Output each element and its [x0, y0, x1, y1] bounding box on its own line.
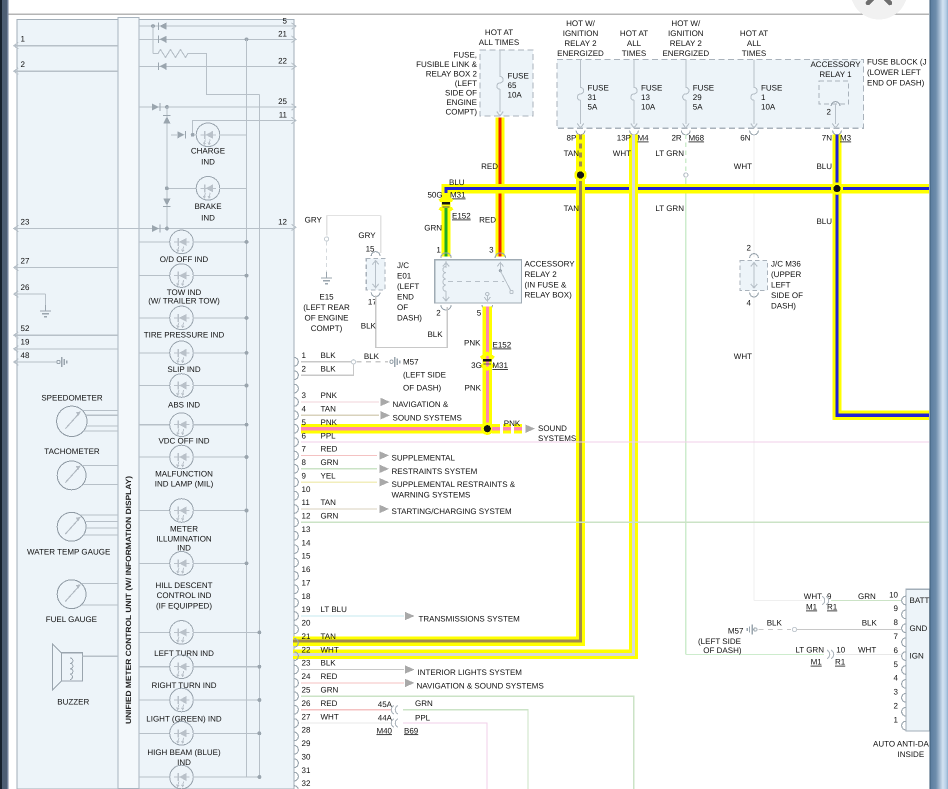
wire PNK from relay pin 5	[483, 307, 492, 429]
svg-text:PNK: PNK	[465, 384, 482, 393]
splice to ground E15	[325, 237, 329, 241]
wire RED meter pin 7 to supplemental restraints	[301, 454, 377, 456]
wire PNK meter pin 5 (highlighted) to sound systems	[301, 424, 487, 433]
svg-text:19: 19	[302, 605, 311, 614]
svg-text:BLK: BLK	[321, 659, 337, 668]
svg-text:1: 1	[894, 715, 899, 724]
svg-text:8: 8	[894, 618, 899, 627]
mirror pin 4	[902, 680, 906, 689]
svg-text:OF DASH): OF DASH)	[703, 646, 742, 655]
svg-text:15: 15	[302, 552, 311, 561]
slip indicator lamp	[139, 352, 170, 354]
dashed PNK stub to sound systems	[492, 424, 500, 433]
svg-text:IND: IND	[201, 158, 215, 167]
svg-text:GRN: GRN	[424, 224, 442, 233]
svg-text:RELAY BOX 2: RELAY BOX 2	[426, 70, 478, 79]
svg-text:GRN: GRN	[321, 686, 339, 695]
svg-text:WHT: WHT	[734, 352, 752, 361]
fuse block J/B (dashed enclosure)	[557, 60, 864, 129]
svg-text:ENGINE: ENGINE	[446, 98, 477, 107]
svg-text:HILL DESCENT: HILL DESCENT	[155, 581, 212, 590]
meter connector pin 18	[294, 598, 298, 607]
svg-text:BLK: BLK	[321, 351, 337, 360]
fuse & relay box 2 (dashed enclosure)	[480, 50, 533, 116]
svg-text:10: 10	[302, 485, 311, 494]
meter connector pin 12	[294, 518, 298, 527]
svg-text:3: 3	[489, 246, 494, 255]
svg-text:O/D OFF IND: O/D OFF IND	[160, 255, 209, 264]
svg-text:6: 6	[894, 646, 899, 655]
svg-text:WHT: WHT	[858, 645, 876, 654]
svg-text:11: 11	[302, 498, 311, 507]
junction node pin 25 row	[165, 105, 169, 109]
connector row 8P / 13P M4 / 2R M68 / 6N / 7N M3	[576, 131, 585, 135]
svg-text:BLK: BLK	[321, 364, 337, 373]
svg-text:BLK: BLK	[364, 352, 380, 361]
svg-text:FUEL GAUGE: FUEL GAUGE	[46, 615, 97, 624]
svg-text:ILLUMINATION: ILLUMINATION	[156, 535, 212, 544]
svg-text:LT BLU: LT BLU	[321, 605, 348, 614]
svg-text:(LEFT: (LEFT	[397, 282, 419, 291]
svg-text:FUSE: FUSE	[693, 84, 714, 93]
svg-text:10A: 10A	[641, 103, 656, 112]
svg-text:(W/ TRAILER TOW): (W/ TRAILER TOW)	[148, 297, 220, 306]
inline connector 50G M31 / E152	[440, 197, 453, 202]
svg-text:12: 12	[278, 218, 287, 227]
brake indicator lamp	[167, 187, 197, 189]
svg-text:SIDE OF: SIDE OF	[771, 291, 803, 300]
svg-text:R1: R1	[835, 658, 846, 667]
svg-text:LT GRN: LT GRN	[655, 149, 684, 158]
mirror pin 1	[902, 721, 906, 730]
svg-text:30: 30	[302, 752, 311, 761]
svg-text:44A: 44A	[378, 714, 393, 723]
meter connector pin 8	[294, 464, 298, 473]
charge indicator lamp	[196, 123, 220, 147]
svg-text:HOT AT: HOT AT	[485, 28, 513, 37]
wire BLU from fuse 1 (7N M3) vertical	[837, 135, 929, 416]
svg-text:(IN FUSE &: (IN FUSE &	[525, 280, 567, 289]
svg-text:16: 16	[302, 565, 311, 574]
svg-text:TAN: TAN	[564, 204, 580, 213]
wire GRN meter pin 12 (runs off right)	[301, 521, 929, 523]
svg-text:ABS IND: ABS IND	[168, 400, 200, 409]
svg-text:8P: 8P	[567, 134, 577, 143]
tire pressure indicator lamp	[139, 317, 170, 319]
accessory relay 2 dashed link	[448, 280, 504, 282]
svg-text:GRN: GRN	[415, 699, 433, 708]
meter connector pin 1	[294, 357, 298, 366]
svg-text:TAN: TAN	[321, 498, 337, 507]
svg-text:GRN: GRN	[321, 458, 339, 467]
svg-text:FUSE: FUSE	[761, 84, 782, 93]
meter connector pin 7	[294, 451, 298, 460]
svg-text:19: 19	[21, 338, 30, 347]
svg-text:END: END	[397, 292, 414, 301]
junction connector J/C E01 box	[366, 258, 385, 290]
svg-text:5A: 5A	[693, 103, 703, 112]
svg-text:RED: RED	[321, 672, 338, 681]
junction connector J/C E01 pin 17 hook	[371, 292, 380, 296]
wire BLK from J/C E01 pin 17 to relay pin 2	[376, 296, 448, 348]
svg-text:DASH): DASH)	[771, 302, 796, 311]
svg-text:12: 12	[302, 512, 311, 521]
svg-text:ALL TIMES: ALL TIMES	[479, 38, 519, 47]
wire pin 11 L-branch	[193, 121, 293, 135]
wire WHT from fuse 13 (13P) to meter pin 22	[293, 135, 634, 655]
left turn indicator lamp	[139, 631, 170, 633]
svg-text:IGN: IGN	[910, 652, 924, 661]
wire RED from fuse 65 to accessory relay 2 pin 3	[495, 118, 504, 257]
svg-text:STARTING/CHARGING SYSTEM: STARTING/CHARGING SYSTEM	[392, 507, 512, 516]
svg-text:23: 23	[302, 659, 311, 668]
svg-text:BLU: BLU	[449, 178, 465, 187]
accessory relay 2 pins 1 and 3 hooks	[441, 253, 451, 258]
inline connector 3G M31 / E152 on PNK wire	[481, 354, 494, 359]
svg-text:LEFT: LEFT	[771, 281, 791, 290]
svg-text:PNK: PNK	[464, 339, 481, 348]
svg-text:ENERGIZED: ENERGIZED	[557, 49, 604, 58]
svg-text:E152: E152	[452, 212, 471, 221]
svg-text:24: 24	[302, 672, 311, 681]
internal bus A vertical	[246, 39, 248, 777]
junction dot BLU at 7N column	[831, 182, 843, 194]
svg-text:ENERGIZED: ENERGIZED	[662, 49, 709, 58]
svg-text:SPEEDOMETER: SPEEDOMETER	[41, 394, 103, 403]
svg-text:14: 14	[302, 538, 311, 547]
svg-text:HOT W/: HOT W/	[671, 19, 701, 28]
svg-text:PNK: PNK	[321, 391, 338, 400]
svg-text:18: 18	[302, 592, 311, 601]
internal diode D1 on pin 5 row	[160, 23, 167, 30]
svg-text:9: 9	[302, 471, 307, 480]
wire LT GRN from fuse 29 (2R)	[685, 135, 687, 172]
svg-text:(LEFT SIDE: (LEFT SIDE	[698, 637, 741, 646]
svg-text:27: 27	[302, 712, 311, 721]
meter connector pin 2	[294, 371, 298, 380]
svg-text:INTERIOR LIGHTS SYSTEM: INTERIOR LIGHTS SYSTEM	[418, 668, 523, 677]
auto anti-dazzling inside mirror box	[906, 589, 930, 731]
mirror pin 6	[902, 652, 906, 661]
meter connector pin 30	[294, 759, 298, 768]
svg-text:LT GRN: LT GRN	[655, 204, 684, 213]
mirror pin 7	[902, 638, 906, 647]
svg-text:COMPT): COMPT)	[445, 108, 477, 117]
wire GRN meter pin 8 to supplemental restraints	[301, 468, 377, 470]
svg-text:END OF DASH): END OF DASH)	[867, 79, 925, 88]
wire PPL from 44A (turns down)	[403, 723, 487, 789]
svg-text:IND LAMP (MIL): IND LAMP (MIL)	[155, 480, 214, 489]
svg-text:5: 5	[302, 418, 307, 427]
svg-text:32: 32	[302, 779, 311, 788]
svg-text:22: 22	[278, 57, 287, 66]
svg-text:6: 6	[302, 431, 307, 440]
junction dot PNK	[481, 423, 493, 435]
svg-text:M1: M1	[806, 603, 818, 612]
fuse 13 10A	[633, 60, 635, 84]
meter connector pin 13	[294, 531, 298, 540]
fuel gauge	[57, 580, 86, 609]
svg-text:GRY: GRY	[305, 216, 323, 225]
svg-text:RED: RED	[479, 216, 496, 225]
wire RED meter pin 26 to 45A connector	[301, 709, 392, 711]
svg-text:IND: IND	[177, 543, 191, 552]
svg-text:SOUND SYSTEMS: SOUND SYSTEMS	[393, 413, 462, 422]
meter connector pin 3	[294, 398, 298, 407]
svg-text:BUZZER: BUZZER	[57, 698, 89, 707]
tow indicator lamp	[139, 275, 170, 277]
right turn indicator lamp	[139, 666, 170, 668]
mirror pin 3	[902, 693, 906, 702]
svg-text:21: 21	[302, 632, 311, 641]
svg-text:RELAY BOX): RELAY BOX)	[525, 291, 573, 300]
accessory relay 2 pins 2 and 5 hooks	[441, 305, 451, 310]
svg-text:RELAY 2: RELAY 2	[670, 39, 703, 48]
svg-text:29: 29	[302, 739, 311, 748]
svg-text:M1: M1	[811, 658, 823, 667]
fuse 65 10A	[499, 50, 501, 72]
svg-text:METER: METER	[170, 525, 198, 534]
svg-text:PNK: PNK	[504, 419, 521, 428]
svg-text:DASH): DASH)	[397, 313, 422, 322]
meter connector pin 23	[294, 665, 298, 674]
svg-text:SLIP IND: SLIP IND	[167, 365, 200, 374]
svg-text:TAN: TAN	[321, 405, 337, 414]
svg-text:SIDE OF: SIDE OF	[445, 89, 477, 98]
svg-text:MALFUNCTION: MALFUNCTION	[155, 470, 213, 479]
meter connector pin 9	[294, 478, 298, 487]
svg-text:WHT: WHT	[734, 162, 752, 171]
svg-text:VDC OFF IND: VDC OFF IND	[158, 437, 209, 446]
MIL indicator lamp	[139, 456, 170, 458]
ABS indicator lamp	[139, 385, 170, 387]
svg-text:WATER TEMP GAUGE: WATER TEMP GAUGE	[27, 548, 110, 557]
svg-text:11: 11	[279, 111, 288, 120]
svg-text:PNK: PNK	[321, 418, 338, 427]
svg-text:J/C M36: J/C M36	[771, 260, 801, 269]
svg-text:22: 22	[302, 645, 311, 654]
svg-text:31: 31	[588, 93, 597, 102]
meter connector pin 6	[294, 438, 298, 447]
svg-text:5: 5	[894, 660, 899, 669]
accessory relay 2 box	[435, 260, 522, 303]
wire GRN from 45A (turns down)	[403, 710, 528, 789]
internal diode D7 feeding charge indicator	[178, 131, 185, 138]
svg-text:2: 2	[21, 60, 26, 69]
wire GRN meter pin 25 (turns down)	[301, 696, 634, 789]
svg-text:7: 7	[302, 445, 307, 454]
wire BLU horizontal to 50G M31	[446, 189, 929, 197]
svg-text:OF DASH): OF DASH)	[403, 384, 442, 393]
svg-text:28: 28	[302, 726, 311, 735]
O/D off indicator lamp	[139, 241, 170, 243]
svg-text:8: 8	[302, 458, 307, 467]
meter connector pin 16	[294, 571, 298, 580]
meter connector pin 24	[294, 679, 298, 688]
meter connector pin 29	[294, 745, 298, 754]
wire vertical feeder x166	[166, 107, 168, 229]
resistor R1	[152, 26, 154, 53]
svg-text:20: 20	[302, 619, 311, 628]
mirror pin 9	[902, 610, 906, 619]
meter connector pin 5	[294, 424, 298, 433]
svg-text:BLU: BLU	[816, 217, 832, 226]
svg-text:10: 10	[836, 645, 845, 654]
svg-text:21: 21	[278, 30, 287, 39]
shield terminal at meter pin 48	[57, 360, 60, 363]
svg-text:M68: M68	[689, 134, 705, 143]
junction node on pin 5 row	[151, 24, 155, 28]
svg-text:2: 2	[894, 702, 899, 711]
svg-text:1: 1	[436, 246, 441, 255]
accessory relay 2 pin 5 stub	[486, 292, 489, 295]
svg-text:48: 48	[21, 351, 30, 360]
svg-text:3G: 3G	[471, 361, 482, 370]
ground at meter pin 26	[45, 294, 47, 311]
svg-text:J/C: J/C	[397, 261, 409, 270]
accessory relay 2 coil	[443, 263, 449, 267]
svg-text:NAVIGATION & SOUND SYSTEMS: NAVIGATION & SOUND SYSTEMS	[417, 681, 544, 690]
svg-text:ALL: ALL	[627, 39, 642, 48]
svg-text:TIRE PRESSURE IND: TIRE PRESSURE IND	[144, 331, 225, 340]
svg-text:PPL: PPL	[415, 714, 431, 723]
svg-text:5: 5	[477, 309, 482, 318]
svg-text:INSIDE: INSIDE	[898, 750, 925, 759]
svg-text:SUPPLEMENTAL RESTRAINTS &: SUPPLEMENTAL RESTRAINTS &	[392, 480, 516, 489]
svg-text:5: 5	[283, 16, 288, 25]
svg-text:HOT AT: HOT AT	[740, 29, 768, 38]
svg-text:7N: 7N	[822, 134, 832, 143]
svg-text:SOUND: SOUND	[538, 424, 567, 433]
svg-text:M57: M57	[403, 358, 419, 367]
svg-text:WARNING SYSTEMS: WARNING SYSTEMS	[392, 490, 471, 499]
meter connector pin 19	[294, 612, 298, 621]
svg-text:M4: M4	[638, 134, 650, 143]
svg-text:OF: OF	[397, 303, 408, 312]
svg-text:6N: 6N	[740, 134, 750, 143]
meter connector pin 31	[294, 772, 298, 781]
svg-text:M31: M31	[450, 191, 466, 200]
svg-text:65: 65	[508, 81, 517, 90]
wire BLK meter pin 23 to interior lights system	[301, 669, 404, 671]
svg-text:TIMES: TIMES	[742, 49, 766, 58]
svg-text:10: 10	[889, 590, 898, 599]
mirror pin 2	[902, 707, 906, 716]
meter connector pin 27	[294, 719, 298, 728]
svg-text:TIMES: TIMES	[622, 49, 646, 58]
svg-text:(IF EQUIPPED): (IF EQUIPPED)	[156, 602, 212, 611]
svg-text:LEFT TURN IND: LEFT TURN IND	[154, 649, 214, 658]
wire TAN meter pin 11 to starting/charging	[301, 508, 377, 510]
svg-text:(LOWER LEFT: (LOWER LEFT	[867, 68, 921, 77]
meter connector pin 4	[294, 411, 298, 420]
svg-text:E01: E01	[397, 271, 412, 280]
svg-text:25: 25	[278, 97, 287, 106]
high beam indicator lamp	[139, 732, 170, 734]
meter connector pin 28	[294, 732, 298, 741]
internal diode D5 up on feeder	[163, 117, 170, 124]
internal diode D3 on pin 22 row	[160, 63, 167, 70]
wire GRY from junction to J/C E01 pin 15	[326, 216, 328, 236]
svg-text:CONTROL IND: CONTROL IND	[157, 591, 212, 600]
svg-text:TAN: TAN	[321, 632, 337, 641]
svg-text:ALL: ALL	[747, 39, 762, 48]
svg-text:29: 29	[693, 93, 702, 102]
svg-text:23: 23	[21, 217, 30, 226]
svg-text:IND: IND	[201, 214, 215, 223]
svg-text:2: 2	[436, 309, 441, 318]
svg-text:WHT: WHT	[321, 712, 339, 721]
svg-text:RELAY 1: RELAY 1	[819, 70, 852, 79]
svg-text:TRANSMISSIONS SYSTEM: TRANSMISSIONS SYSTEM	[419, 614, 521, 623]
left window edge bar	[0, 0, 9, 789]
svg-text:WHT: WHT	[321, 645, 339, 654]
svg-text:45A: 45A	[378, 700, 393, 709]
mirror pin 10	[902, 596, 906, 605]
svg-text:10A: 10A	[508, 91, 523, 100]
svg-text:2R: 2R	[671, 134, 681, 143]
svg-text:IGNITION: IGNITION	[668, 29, 704, 38]
svg-text:1: 1	[761, 93, 766, 102]
wire RED meter pin 24 to navigation & sound systems	[301, 682, 404, 684]
svg-text:M57: M57	[728, 627, 744, 636]
svg-text:FUSE: FUSE	[588, 84, 609, 93]
meter connector pin 26	[294, 705, 298, 714]
meter connector pin 14	[294, 545, 298, 554]
svg-text:TOW IND: TOW IND	[167, 288, 202, 297]
svg-text:BLU: BLU	[816, 162, 832, 171]
svg-text:UNIFIED METER CONTROL UNIT (W/: UNIFIED METER CONTROL UNIT (W/ INFORMATI…	[124, 475, 133, 724]
svg-text:(LEFT: (LEFT	[455, 79, 477, 88]
internal diode D4 on pin 25 row	[152, 103, 159, 110]
unified meter control unit U1 outline	[17, 20, 294, 789]
svg-text:CHARGE: CHARGE	[191, 147, 225, 156]
internal diode D2 on pin 21 row	[160, 36, 167, 43]
VDC off indicator lamp	[139, 424, 170, 426]
svg-text:B69: B69	[404, 726, 419, 735]
svg-text:HIGH BEAM (BLUE): HIGH BEAM (BLUE)	[147, 748, 221, 757]
buzzer	[52, 644, 61, 690]
svg-text:3: 3	[302, 391, 307, 400]
svg-text:2: 2	[827, 108, 832, 117]
svg-text:3: 3	[894, 688, 899, 697]
svg-text:SUPPLEMENTAL: SUPPLEMENTAL	[392, 453, 456, 462]
svg-text:1: 1	[21, 35, 26, 44]
internal bus B vertical	[258, 95, 260, 778]
top toolbar divider line	[9, 13, 930, 15]
svg-text:4: 4	[894, 674, 899, 683]
svg-text:ACCESSORY: ACCESSORY	[525, 260, 576, 269]
junction dot TAN at 8P column	[574, 169, 586, 181]
wire WHT meter pin 27 to 44A connector	[301, 722, 392, 724]
meter connector pin 20	[294, 625, 298, 634]
svg-text:FUSE: FUSE	[508, 72, 529, 81]
svg-text:9: 9	[827, 592, 832, 601]
svg-text:(LEFT REAR: (LEFT REAR	[303, 303, 350, 312]
unnumbered connector scallop	[294, 384, 298, 393]
svg-text:GRN: GRN	[321, 512, 339, 521]
meter connector pin 17	[294, 585, 298, 594]
svg-text:52: 52	[21, 324, 30, 333]
fuse 29 5A	[685, 60, 687, 84]
svg-text:BLK: BLK	[427, 330, 443, 339]
meter illumination indicator lamp	[139, 510, 170, 512]
svg-text:COMPT): COMPT)	[311, 324, 343, 333]
meter connector pin 21	[294, 638, 298, 647]
svg-text:26: 26	[302, 699, 311, 708]
svg-text:E15: E15	[319, 293, 334, 302]
wire TAN from fuse 31 (8P)	[293, 135, 581, 641]
